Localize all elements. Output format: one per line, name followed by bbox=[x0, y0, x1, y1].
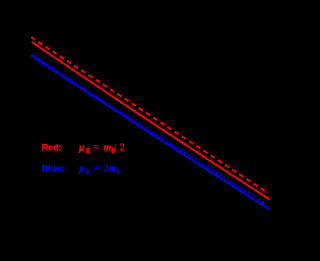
svg-text:R: R bbox=[85, 168, 91, 176]
svg-text:μ: μ bbox=[78, 164, 85, 175]
svg-text:=: = bbox=[94, 143, 100, 154]
svg-text:=: = bbox=[94, 164, 100, 175]
svg-text:2: 2 bbox=[120, 143, 125, 154]
svg-text:Blue:: Blue: bbox=[42, 164, 65, 174]
svg-text:R: R bbox=[85, 147, 91, 155]
svg-text:m: m bbox=[104, 143, 112, 154]
svg-text:m: m bbox=[109, 164, 117, 175]
svg-text:Red:: Red: bbox=[42, 143, 62, 153]
svg-text:μ: μ bbox=[78, 143, 85, 154]
svg-text:b: b bbox=[117, 168, 121, 176]
